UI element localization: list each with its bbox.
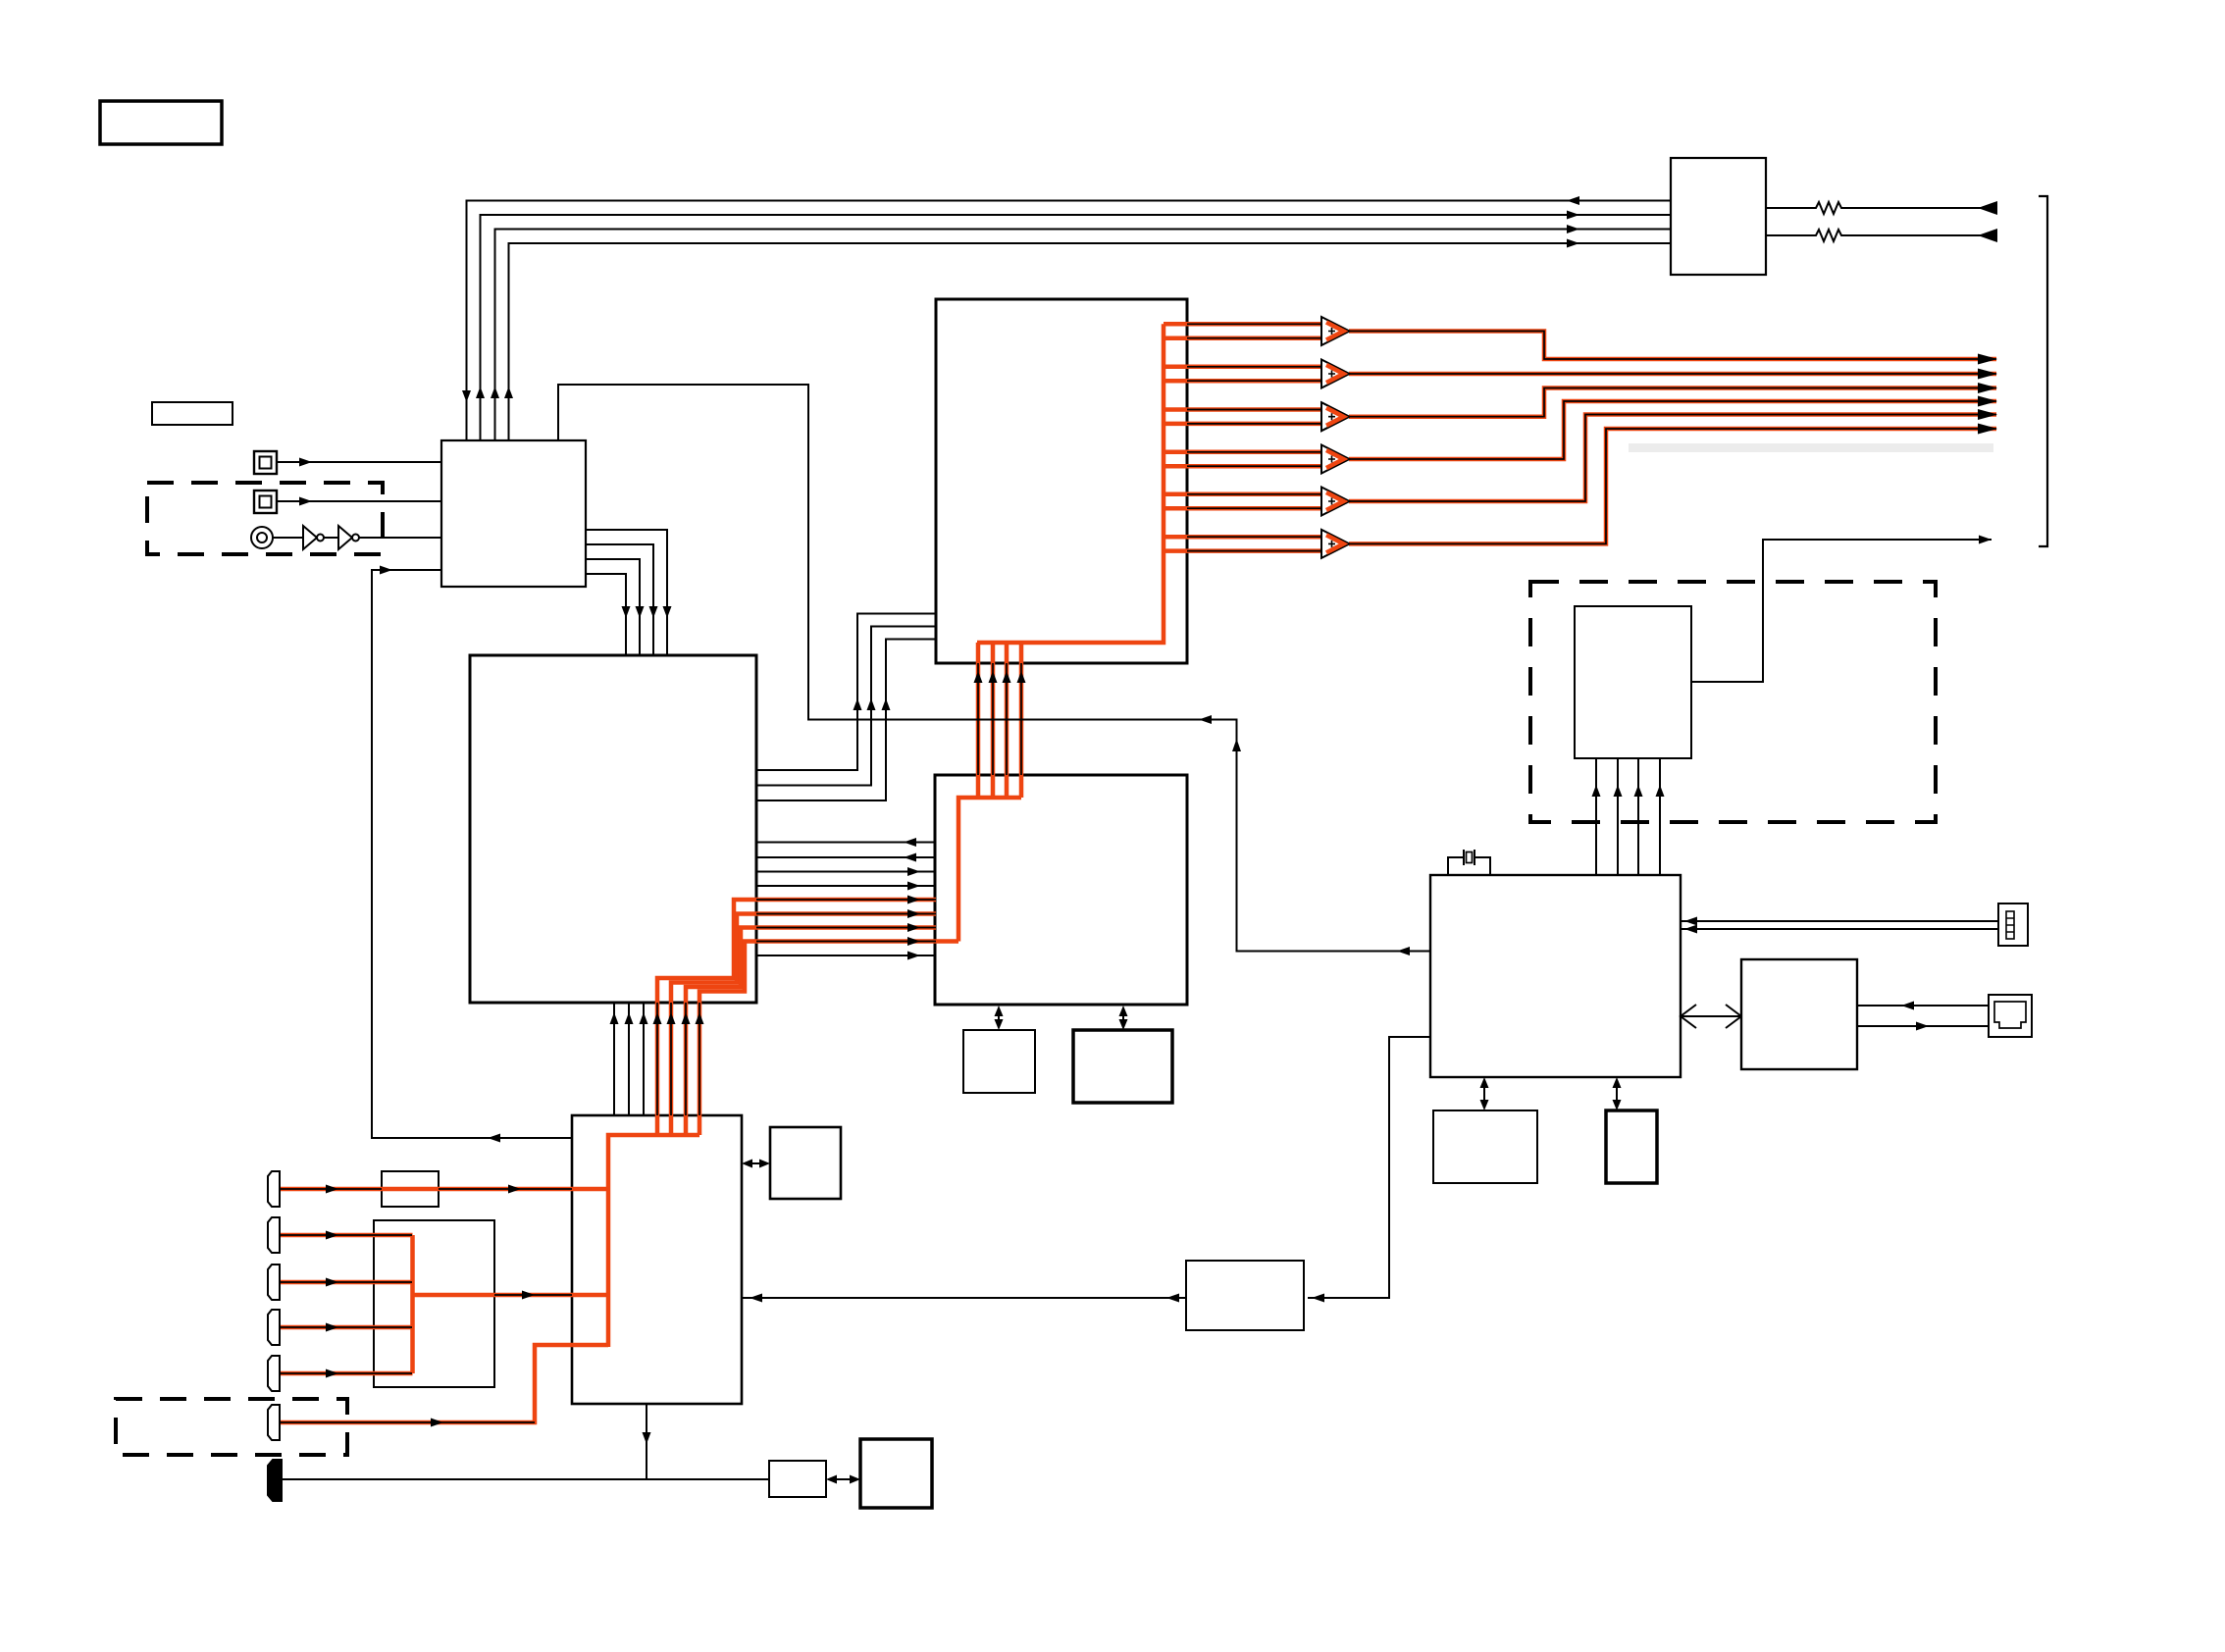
connector C1 (RCA)	[268, 1171, 280, 1207]
orange path: riser w1 to line h1	[657, 900, 936, 1135]
box A (input switch IC)	[441, 440, 586, 587]
wire A right step 2	[586, 544, 653, 655]
orange path: D riser v2	[991, 643, 996, 798]
orange path: riser w4 to line h4	[699, 942, 958, 1136]
arrow L3 up (mid)	[491, 387, 499, 398]
wire B-D 1	[756, 842, 936, 844]
wire amp U5 output core	[1349, 415, 1996, 502]
wire B-D data1 (highlighted)	[756, 899, 936, 901]
crystal X1	[1448, 850, 1490, 875]
wire amp U4 input cores	[1187, 452, 1323, 466]
arrow EBo1 up	[653, 1012, 662, 1024]
wire B-D data2 (highlighted)	[756, 913, 936, 915]
wire C5 core	[281, 1372, 412, 1374]
dashed box 1 (top-left option)	[147, 483, 383, 554]
wire J2 to box A	[277, 500, 442, 502]
wire E-B core 3	[643, 1003, 645, 1115]
op-amp buffer U3	[1321, 402, 1350, 431]
wire I to RJ45 in	[1857, 1005, 1989, 1007]
wire amp U3 output core	[1349, 388, 1996, 417]
connector GND (phono ground, filled)	[268, 1460, 282, 1501]
connector C2 (RCA)	[268, 1217, 280, 1253]
orange path: riser w2 to line h2	[671, 914, 936, 1136]
wire E-B orange core 3	[685, 1003, 687, 1115]
wire H down to J	[1308, 1037, 1430, 1298]
arrow I-RJ left	[1901, 1002, 1914, 1010]
arrowheads H-H1	[1480, 1077, 1489, 1088]
arrow CD2 up	[989, 671, 998, 683]
arrow A step4 down	[622, 606, 631, 618]
arrowheads H-H2	[1613, 1077, 1622, 1088]
arrow A step2 down	[649, 606, 658, 618]
bus D to D1 (double arrow)	[998, 1009, 1000, 1026]
orange path: C6 input highlight	[281, 1345, 608, 1422]
arrow H-DIP2 left	[1684, 925, 1697, 934]
wire H to A (long return path)	[558, 385, 1430, 952]
arrow C6	[431, 1419, 443, 1427]
op-amp buffer U2	[1321, 360, 1350, 388]
arrow B-C3 up	[882, 698, 891, 710]
wire C-D riser core 1	[977, 663, 979, 775]
box F (input selector network)	[374, 1220, 494, 1387]
arrow L2 up (mid)	[476, 387, 485, 398]
wire C6 core	[281, 1421, 535, 1423]
dashed box 3 (right option module)	[1530, 582, 1936, 822]
orange path amp U2 output	[1349, 372, 1996, 377]
orange path: C4 input highlight	[281, 1325, 413, 1330]
wire selector output core	[494, 1294, 572, 1296]
wire E-B core 2	[628, 1003, 630, 1115]
wire amp U1 input cores	[1187, 324, 1323, 337]
box I (modem IC)	[1741, 959, 1857, 1069]
arrow CD3 up	[1003, 671, 1011, 683]
bus H to H2 (double arrow)	[1616, 1082, 1618, 1106]
wire B-C 1	[756, 614, 936, 771]
arrow B-D3 right	[907, 867, 920, 876]
wire H right to DIP 1	[1681, 920, 1998, 922]
top bus wire L4	[509, 243, 1672, 440]
wire E-B orange core 4	[699, 1003, 700, 1115]
box G (tuner module IC)	[1575, 606, 1691, 758]
orange stub amp U1 upper input	[1164, 322, 1323, 327]
wire C-D riser core 4	[1020, 663, 1022, 775]
arrow EB3 up	[640, 1012, 648, 1024]
arrow CD1 up	[974, 671, 983, 683]
arrow amp U4 output (big right)	[1978, 396, 1997, 407]
dashed box 2 (bottom-left option)	[116, 1399, 347, 1455]
bus H to I (wide double arrow)	[1681, 1005, 1741, 1028]
box B (main controller IC)	[470, 655, 756, 1003]
arrow L4 up (mid)	[504, 387, 513, 398]
orange stub amp U3 lower input	[1164, 422, 1323, 427]
box D (DSP IC)	[935, 775, 1187, 1005]
top bus wire L2	[481, 215, 1672, 440]
orange stub amp U2 lower input	[1164, 379, 1323, 384]
inverter U2	[338, 526, 359, 549]
bus E to E2 (double arrow)	[746, 1162, 766, 1164]
orange stub amp U6 upper input	[1164, 535, 1323, 540]
ground bus wire	[281, 1478, 769, 1480]
arrow J-E left a	[1166, 1294, 1179, 1303]
wire C4 core	[281, 1326, 412, 1328]
wire B-D 2	[756, 856, 936, 858]
box L (power unit)	[860, 1439, 932, 1508]
wire E-B orange core 2	[670, 1003, 672, 1115]
connector J1 (square-in-square)	[254, 451, 277, 474]
orange path: box E riser and bar	[608, 1135, 699, 1347]
arrow A step3 down	[636, 606, 645, 618]
arrow L2 right (near TR box)	[1567, 211, 1579, 220]
bus D to D2 (double arrow)	[1122, 1009, 1124, 1026]
arrow amp U5 output (big right)	[1978, 409, 1997, 420]
arrow H-DIP1 left	[1684, 917, 1697, 926]
wire G-H 1	[1595, 758, 1597, 875]
box H1 (display)	[1433, 1110, 1537, 1183]
arrow E bottom down	[643, 1432, 651, 1444]
wire G-H 3	[1637, 758, 1639, 875]
arrow H-A up (riser)	[1232, 739, 1241, 751]
connector J3 (circle jack)	[251, 527, 273, 548]
wire E bottom to ground bus	[646, 1404, 647, 1479]
arrow L3 right (near TR box)	[1567, 225, 1579, 233]
orange stub amp U6 lower input	[1164, 548, 1323, 553]
arrow B-D data2 right	[907, 909, 920, 918]
arrow L1 down (mid)	[462, 390, 471, 402]
arrow into TR wire2 (big left)	[1978, 229, 1997, 242]
arrow GH3 up	[1634, 785, 1643, 797]
arrow C5	[326, 1369, 338, 1378]
connector C5 (RCA)	[268, 1356, 280, 1391]
arrow EB1 up	[610, 1012, 619, 1024]
arrow H-A left (near H)	[1397, 947, 1410, 955]
arrowheads E-E2	[742, 1160, 752, 1168]
wire amp U2 input cores	[1187, 367, 1323, 381]
arrow C2	[326, 1231, 338, 1240]
arrow G wire right	[1979, 536, 1992, 544]
arrow B-C1 up	[854, 698, 862, 710]
op-amp buffer U5	[1321, 488, 1350, 516]
wire B-D data4 (highlighted)	[756, 941, 936, 943]
arrow EBo4 up	[696, 1012, 704, 1024]
arrow feedback left (bottom run)	[488, 1134, 500, 1143]
arrow L4 right (near TR box)	[1567, 239, 1579, 248]
arrow A step1 down	[663, 606, 672, 618]
orange path: riser w3 to line h3	[686, 928, 936, 1136]
op-amp buffer U6	[1321, 530, 1350, 558]
arrow J2 wire right	[299, 497, 312, 506]
arrow J-E left b	[750, 1294, 762, 1303]
arrow I-RJ right	[1916, 1022, 1929, 1031]
orange path amp U3 output	[1349, 388, 1996, 417]
wire U1 to U2	[324, 537, 338, 539]
connector C4 (RCA)	[268, 1310, 280, 1345]
connector C3 (RCA)	[268, 1265, 280, 1300]
wire amp U4 output core	[1349, 401, 1996, 459]
arrow B-D2 left	[904, 853, 916, 862]
arrow C3	[326, 1278, 338, 1287]
arrow L1 left (near TR box)	[1567, 196, 1579, 205]
orange path: selector output	[413, 1293, 609, 1298]
wire B-D data3 (highlighted)	[756, 927, 936, 929]
wire amp U3 input cores	[1187, 410, 1323, 424]
orange path amp U5 output	[1349, 415, 1996, 502]
wire amp U1 output core	[1349, 332, 1996, 360]
arrow B-D5 right	[907, 952, 920, 960]
wire A right step 3	[586, 559, 640, 655]
arrow B-D data4 right	[907, 937, 920, 946]
arrow EB2 up	[625, 1012, 634, 1024]
wire TR right 2 with resistor R2	[1766, 230, 1996, 241]
orange path: box D riser and bar	[958, 798, 1021, 942]
orange path: C5 input highlight	[281, 1371, 413, 1376]
orange stub amp U4 upper input	[1164, 450, 1323, 455]
box C (LED driver IC)	[936, 299, 1187, 663]
DIP switch connector	[1998, 903, 2028, 946]
arrow H-J left	[1312, 1294, 1324, 1303]
wire G right to bracket	[1691, 540, 1992, 682]
wire E-B orange core 1	[656, 1003, 658, 1115]
arrowheads K-L	[826, 1475, 837, 1484]
arrow feedback right into A	[380, 566, 392, 575]
op-amp buffer U1	[1321, 317, 1350, 345]
arrow B-D1 left	[904, 838, 916, 847]
box J (IR receiver)	[1186, 1261, 1304, 1330]
wire feedback E to A	[372, 570, 572, 1138]
orange path amp U6 output	[1349, 429, 1996, 543]
arrow amp U3 output (big right)	[1978, 383, 1997, 393]
arrow B-D data3 right	[907, 923, 920, 932]
arrow amp U1 output (big right)	[1978, 354, 1997, 365]
ghost text smudge	[1629, 443, 1993, 452]
wire TR right 1 with resistor R1	[1766, 202, 1996, 214]
wire A right step 4	[586, 574, 626, 655]
orange path: bar to triangle riser	[977, 324, 1164, 643]
arrowheads D-D2	[1119, 1006, 1128, 1016]
arrow EBo2 up	[667, 1012, 676, 1024]
orange stub amp U4 lower input	[1164, 464, 1323, 469]
bracket connector (right side)	[2039, 196, 2047, 546]
orange stub amp U3 upper input	[1164, 407, 1323, 412]
wire H right to DIP 2	[1681, 928, 1998, 930]
wire B-D 3	[756, 871, 936, 873]
wire G-H 2	[1617, 758, 1619, 875]
wire J1 to box A	[277, 461, 442, 463]
wire I to RJ45 out	[1857, 1025, 1989, 1027]
wire G-H 4	[1659, 758, 1661, 875]
arrow C1 b	[508, 1185, 521, 1194]
box TR (top-right IC)	[1671, 158, 1766, 275]
orange path: D riser v1	[976, 643, 981, 798]
arrow GH2 up	[1614, 785, 1623, 797]
box D1 (RAM)	[963, 1030, 1035, 1093]
arrow into TR wire1 (big left)	[1978, 201, 1997, 215]
op-amp buffer U4	[1321, 445, 1350, 474]
wire C-D riser core 3	[1006, 663, 1008, 775]
arrow amp U6 output (big right)	[1978, 424, 1997, 435]
connector J2 (square-in-square)	[254, 490, 277, 513]
orange stub amp U1 lower input	[1164, 336, 1323, 340]
wire C2 core	[281, 1234, 412, 1236]
box K (filter)	[769, 1461, 826, 1497]
wire J3 to inverter	[273, 537, 303, 539]
orange stub amp U5 lower input	[1164, 506, 1323, 511]
wire C-D riser core 2	[992, 663, 994, 775]
arrow selector output	[522, 1291, 535, 1300]
inverter U1	[303, 526, 324, 549]
wire B-C 3	[756, 640, 936, 801]
wire amp U6 output core	[1349, 429, 1996, 543]
arrow EBo3 up	[682, 1012, 691, 1024]
orange path: D riser v4	[1019, 643, 1024, 798]
wire B-D 5	[756, 955, 936, 956]
wire C3 core	[281, 1281, 412, 1283]
wire A right step 1	[586, 530, 667, 655]
orange path: C2 input highlight	[281, 1233, 413, 1238]
bus K to L (double arrow)	[830, 1478, 856, 1480]
wire B-D 4	[756, 885, 936, 887]
wire amp U6 input cores	[1187, 537, 1323, 550]
orange stub amp U2 upper input	[1164, 365, 1323, 370]
wire E-B core 1	[613, 1003, 615, 1115]
box H2 (keys)	[1606, 1110, 1657, 1183]
arrow C1 a	[326, 1185, 338, 1194]
wire C1 core	[281, 1188, 572, 1190]
arrow GH4 up	[1656, 785, 1665, 797]
orange path: D riser v3	[1005, 643, 1009, 798]
orange path amp U1 output	[1349, 332, 1996, 360]
orange path amp U4 output	[1349, 401, 1996, 459]
orange path: C1 input highlight	[281, 1187, 608, 1192]
box H (system micom)	[1430, 875, 1681, 1077]
arrow B-D4 right	[907, 882, 920, 891]
arrow H-A left (top run)	[1199, 715, 1212, 724]
connector C6 (RCA)	[268, 1405, 280, 1440]
top bus wire L3	[495, 230, 1672, 441]
arrow amp U2 output (big right)	[1978, 369, 1997, 380]
orange stub amp U5 upper input	[1164, 492, 1323, 497]
arrow CD4 up	[1017, 671, 1026, 683]
wire U2 to box A	[359, 537, 442, 539]
inline box B1 (attenuator on C1 wire)	[382, 1171, 439, 1207]
arrowheads D-D1	[995, 1006, 1004, 1016]
arrow B-C2 up	[867, 698, 876, 710]
arrow B-D data1 right	[907, 896, 920, 904]
wire B-C 2	[756, 627, 936, 786]
box E2 (EEPROM)	[770, 1127, 841, 1199]
RJ45 jack connector	[1989, 995, 2032, 1037]
small box 2 (legend)	[152, 402, 233, 425]
arrow GH1 up	[1592, 785, 1601, 797]
wire amp U5 input cores	[1187, 494, 1323, 508]
wire amp U2 output core	[1349, 373, 1996, 375]
bus H to H1 (double arrow)	[1483, 1082, 1485, 1106]
box D2 (ROM)	[1073, 1030, 1172, 1103]
orange path: selector bus in box F	[410, 1235, 415, 1373]
arrow J1 wire right	[299, 458, 312, 467]
arrow C4	[326, 1323, 338, 1332]
wire J to E	[742, 1297, 1186, 1299]
box TL (title block)	[100, 101, 222, 144]
top bus wire L1	[467, 201, 1672, 441]
orange path: C3 input highlight	[281, 1280, 413, 1285]
box E (A/D front-end IC)	[572, 1115, 742, 1404]
